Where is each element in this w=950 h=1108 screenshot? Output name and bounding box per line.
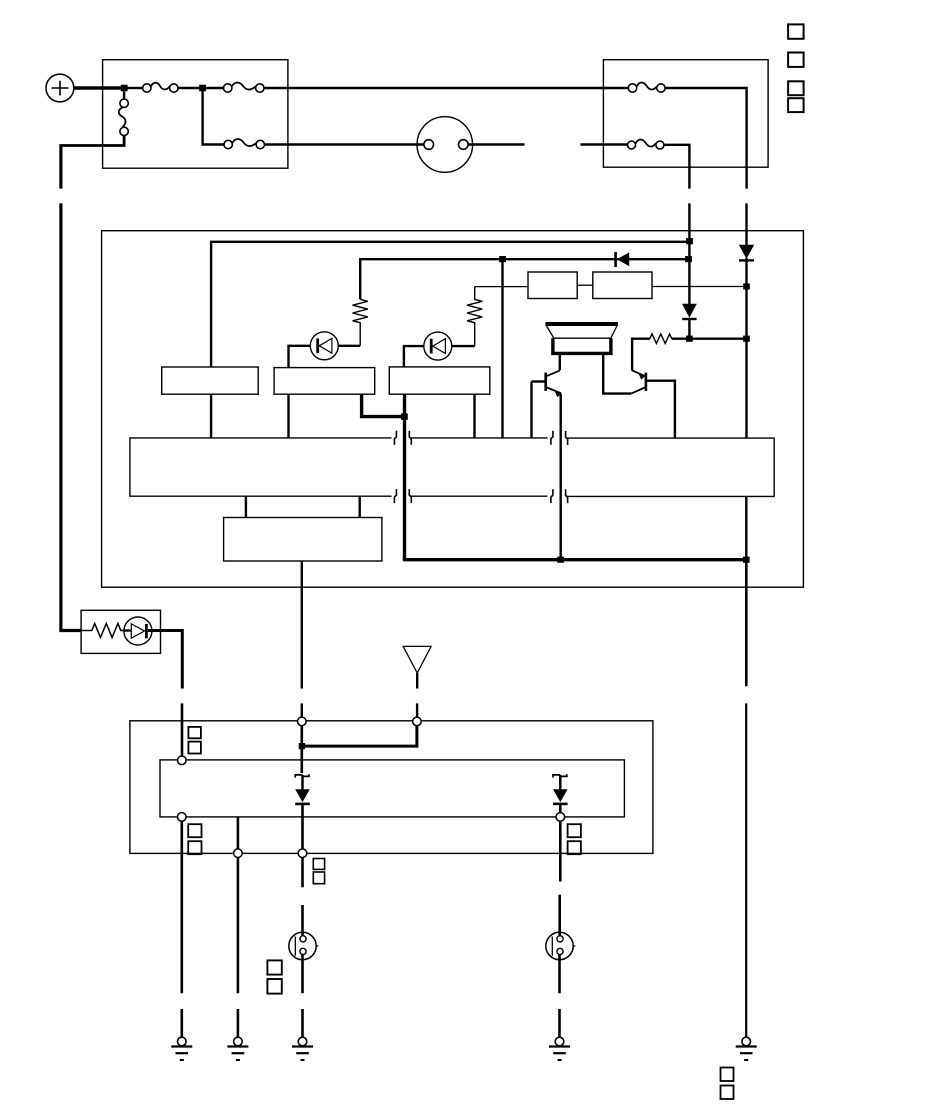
buzzer body bbox=[553, 337, 612, 339]
block 2 bbox=[274, 368, 375, 395]
wire left pin drop resume bbox=[181, 703, 184, 756]
node bus bbox=[401, 413, 408, 419]
receiver unit outer box bbox=[130, 721, 653, 854]
resistor R4 horizontal bbox=[81, 624, 124, 638]
wire block3 to connector bbox=[473, 394, 475, 438]
wire diode1 resume to switch1 bbox=[301, 905, 304, 937]
wire block2 to connector bbox=[287, 394, 289, 438]
pin circle antenna bbox=[413, 717, 422, 726]
wire fuse A to junction 2 bbox=[178, 87, 200, 89]
wire resume to right fuse box bbox=[580, 143, 627, 145]
wire fuse D to left drop bbox=[61, 136, 124, 146]
fuse box (left) bbox=[103, 60, 288, 169]
wire junction to fuse A bbox=[127, 87, 143, 89]
wire block1 to connector bbox=[210, 394, 212, 438]
wire main feed resume to ground bbox=[745, 703, 747, 1036]
wire R3 left down to Q2 emitter bbox=[632, 339, 650, 371]
ground stub g4 bbox=[558, 1009, 561, 1037]
wire main feed below unit bbox=[745, 560, 748, 687]
vertical fuse D in left fuse box bbox=[123, 91, 125, 99]
terminal arrow into unit (right feed) bbox=[739, 245, 754, 261]
wire block3 thick bus down bbox=[403, 394, 406, 560]
wire buzzer right lead to Q2 base bbox=[603, 354, 631, 394]
wire junction 2 to fuse B bbox=[206, 87, 224, 89]
transistor Q1 bbox=[546, 371, 562, 398]
node junction at battery feed bbox=[121, 85, 128, 92]
pin circle row2 feed bbox=[298, 717, 307, 726]
resistor R3 horizontal bbox=[650, 334, 672, 344]
connector row2 box bbox=[224, 518, 382, 562]
wire R3 right to nodes bbox=[672, 338, 747, 340]
node C1 bbox=[743, 283, 750, 289]
buzzer cone sides bbox=[547, 326, 617, 338]
wire feed pin down to node bbox=[300, 726, 303, 773]
buzzer top bar bbox=[545, 322, 618, 326]
ground g3 bbox=[292, 1037, 313, 1060]
fuse F (second row) bbox=[628, 140, 664, 149]
pin circle left bottom bbox=[178, 813, 187, 822]
door switch 1 bbox=[289, 932, 319, 959]
pin circle outer left bbox=[234, 849, 243, 858]
wire row1 to row2 left bbox=[245, 496, 247, 517]
label squares inner bottom left bbox=[188, 824, 201, 854]
wire left drop upper segment bbox=[59, 144, 62, 188]
ground stub g2 bbox=[237, 1009, 240, 1037]
wire LED1 left into block 2 bbox=[289, 346, 311, 368]
diode D2 down on inner feed bbox=[682, 304, 697, 319]
block 4b bbox=[593, 272, 652, 299]
fuse C bbox=[224, 139, 264, 149]
node junction 2 bbox=[199, 85, 206, 92]
wire inner bottom to outer pin left bbox=[237, 817, 240, 849]
wire between 4a 4b bbox=[577, 284, 593, 286]
label squares bottom right bbox=[721, 1068, 734, 1100]
diode D5 top contact bbox=[553, 774, 567, 777]
wire Q2 collector bbox=[646, 381, 675, 438]
fuse box (right) bbox=[603, 60, 768, 168]
resistor R1 vertical bbox=[353, 299, 368, 345]
thick bus along bottom of unit bbox=[405, 558, 747, 560]
wire LED1 right to resistor R1 bbox=[338, 345, 360, 347]
wire junction2 down to fuse C bbox=[203, 91, 224, 145]
fuse B bbox=[224, 83, 265, 93]
wire diode2 down segment bbox=[559, 821, 562, 881]
wire row2 output resume bbox=[301, 703, 303, 717]
wire row2 output down bbox=[301, 561, 303, 689]
connector row1 segment B bbox=[409, 431, 553, 503]
connector row1 segment C bbox=[566, 431, 775, 503]
ground stub g1 bbox=[181, 1009, 184, 1037]
wire fuse C to ignition switch bbox=[265, 143, 425, 145]
wire block2 thick branch bbox=[362, 394, 405, 416]
node bus right bbox=[743, 557, 750, 563]
diode D5 bbox=[553, 775, 568, 813]
fuse E (top row) bbox=[628, 83, 665, 93]
label squares left of switch1 bbox=[267, 960, 281, 993]
node B1 bbox=[499, 256, 506, 262]
block 3 bbox=[389, 367, 490, 394]
antenna stem bbox=[416, 673, 418, 689]
label squares below receiver bbox=[313, 859, 324, 884]
node feed bbox=[299, 743, 305, 749]
wire inner feed to node C2 row bbox=[688, 319, 690, 339]
thick link node to antenna pin bbox=[302, 726, 417, 746]
wire node B1 down to connector bbox=[501, 262, 503, 438]
wire buzzer left lead to Q1 collector bbox=[559, 354, 561, 370]
wire switch2 down bbox=[558, 955, 561, 994]
resistor diode box bbox=[81, 610, 160, 653]
pin circle left top bbox=[178, 756, 187, 765]
ground g2 bbox=[227, 1037, 248, 1060]
label squares inner top left bbox=[188, 727, 201, 754]
wire LED2 right to R2 bbox=[452, 345, 475, 347]
indicator LED2 bbox=[424, 332, 452, 360]
fuse A bbox=[143, 83, 178, 93]
wire battery feed resume into unit bbox=[745, 203, 747, 246]
wire 4b to right feed bbox=[652, 286, 747, 288]
ground g1 bbox=[171, 1037, 192, 1060]
receiver unit inner box bbox=[160, 760, 624, 817]
wire battery to fuse box bbox=[74, 86, 124, 89]
wire switch1 down bbox=[301, 955, 304, 994]
pin circle diode2 out bbox=[556, 813, 565, 822]
ground stub g3 bbox=[301, 1009, 304, 1037]
diode D4 bbox=[295, 775, 310, 849]
battery positive terminal bbox=[46, 74, 74, 102]
wire diode1 pin down segment bbox=[301, 858, 304, 888]
wire right feed lower segment bbox=[745, 496, 747, 559]
wire Q1 base to connector bbox=[530, 382, 532, 438]
pin circle outer diode1 bbox=[298, 849, 307, 858]
indicator LED1 bbox=[310, 332, 338, 360]
resistor R2 vertical bbox=[467, 287, 482, 347]
antenna bbox=[403, 646, 431, 673]
wire row B y=259.2 bbox=[360, 259, 689, 299]
control unit box bbox=[102, 231, 804, 588]
node bus q1 bbox=[557, 557, 564, 563]
antenna stem resume bbox=[416, 703, 418, 717]
node B2 bbox=[685, 256, 692, 262]
wire fuse B to right fuse box (ROW 1) bbox=[264, 87, 628, 89]
wire Q1 emitter down through break bbox=[560, 394, 562, 560]
diode LED3 bbox=[124, 617, 152, 645]
ignition switch bbox=[417, 117, 473, 173]
wire LED3 out right and down bbox=[148, 631, 182, 689]
diode D1 pointing left on row B bbox=[616, 252, 630, 267]
wire pin left bottom down bbox=[181, 821, 184, 993]
diode D4 top contact bbox=[295, 774, 309, 777]
node A1 bbox=[686, 238, 693, 244]
label squares right margin bbox=[788, 24, 804, 112]
wire ignition switch output bbox=[468, 143, 524, 145]
wire left drop lower segment bbox=[61, 203, 81, 630]
wire LED2 left into block 3 bbox=[404, 346, 424, 367]
label squares inner bottom right bbox=[568, 824, 581, 854]
node D2 bottom bbox=[686, 336, 693, 342]
wire diode2 resume to switch2 bbox=[558, 895, 561, 937]
wire fuse F to inner drop bbox=[664, 145, 690, 189]
block 1 bbox=[162, 367, 259, 394]
wire right feed to node bbox=[745, 258, 747, 438]
ground g5 bbox=[736, 1037, 757, 1060]
transistor Q2 bbox=[631, 370, 646, 393]
wire Q1 base row bbox=[532, 380, 546, 382]
wire row1 to row2 right bbox=[359, 496, 361, 517]
wire fuse E to right drop bbox=[665, 88, 747, 189]
connector row1 segment A bbox=[130, 431, 397, 503]
wire accessory feed resume into unit bbox=[688, 203, 690, 304]
node C2 bbox=[743, 336, 750, 342]
wire R2 top to block 3a bbox=[475, 286, 528, 288]
wire row A y=241.8 bbox=[211, 242, 689, 367]
wire outer pin left down bbox=[237, 858, 240, 994]
door switch 2 bbox=[546, 932, 576, 959]
ground g4 bbox=[549, 1037, 570, 1060]
block 4a bbox=[528, 272, 577, 299]
